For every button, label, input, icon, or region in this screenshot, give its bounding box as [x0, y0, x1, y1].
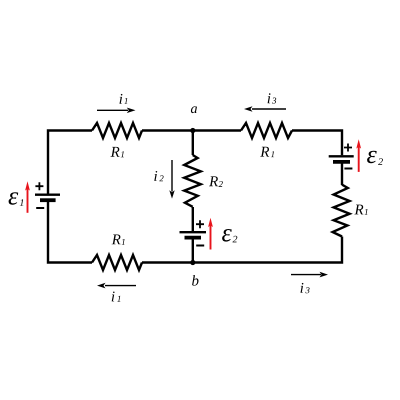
node b dot [190, 260, 195, 265]
plus sign middle battery [196, 220, 204, 228]
emf arrow left (red, up) [25, 181, 30, 213]
resistor R1 top-left zigzag [92, 123, 142, 138]
minus sign left battery [36, 207, 44, 209]
battery E2 middle: short negative plate [185, 236, 202, 240]
label R1 top-right [260, 147, 274, 157]
resistor R2 middle zigzag (vertical) [184, 155, 201, 207]
wire bottom-left corner segment [48, 201, 92, 263]
label E2 right [367, 151, 383, 165]
label R1 top-left [111, 147, 124, 157]
label E2 middle [222, 229, 237, 242]
wire right-bottom corner segment [142, 237, 342, 263]
label R1 bottom-left [112, 235, 125, 245]
resistor R1 bottom-left zigzag [92, 255, 142, 270]
label R2 [209, 176, 223, 187]
wire right middle segment [341, 163, 343, 185]
label node b [192, 275, 198, 286]
current arrow i2 (pointing down) [169, 160, 174, 199]
battery E2 right: short negative plate [333, 160, 350, 164]
plus sign right battery [344, 144, 352, 152]
resistor R1 right zigzag (vertical) [333, 185, 350, 237]
wire middle top segment (node a down) [192, 131, 194, 156]
label i1 top [120, 94, 128, 104]
label E1 left [9, 192, 24, 206]
battery E2 right: long positive plate [329, 155, 354, 157]
node a dot [190, 128, 195, 133]
label i3 bottom [301, 283, 310, 293]
label i2 [154, 171, 163, 181]
plus sign left battery [35, 182, 43, 190]
emf arrow middle (red, up) [208, 218, 213, 250]
emf arrow right (red, up) [356, 139, 361, 172]
battery E1 left: long positive plate [35, 194, 60, 196]
battery E2 middle: long positive plate [180, 231, 207, 233]
battery E1 left: short negative plate [40, 198, 56, 202]
minus sign right battery [344, 168, 352, 170]
current arrow i3 bottom (pointing right) [291, 272, 328, 278]
wire middle segment (R2 to battery) [192, 207, 194, 231]
resistor R1 top-right zigzag [241, 123, 292, 138]
wire top-left segment [48, 131, 92, 196]
wire top-right corner segment [292, 131, 342, 156]
label node a [191, 106, 197, 113]
wire top-middle segment [142, 129, 241, 131]
current arrow i1 top [97, 108, 136, 113]
current arrow i1 bottom (pointing left) [97, 283, 136, 289]
current arrow i3 top (pointing left) [244, 106, 286, 112]
label R1 right [354, 205, 367, 215]
minus sign middle battery [196, 245, 204, 247]
wire middle bottom segment (battery to node b) [192, 239, 194, 263]
label i1 bottom [112, 292, 121, 302]
label i3 top [268, 93, 277, 103]
